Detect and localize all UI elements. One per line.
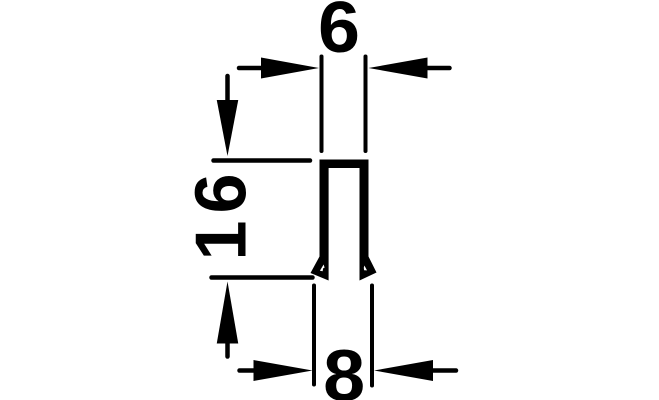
svg-text:6: 6 [318, 0, 360, 68]
dim 16 top arrow [225, 76, 230, 105]
dim 8 right arrow [433, 368, 456, 373]
notch left foot [320, 265, 325, 272]
notch right foot [364, 266, 367, 271]
svg-text:16: 16 [182, 166, 262, 260]
dim 8 extension line right [370, 286, 374, 386]
dim 16 extension line top [214, 158, 311, 163]
dim 6 left arrow [239, 66, 266, 71]
dim 6 extension line right [364, 57, 368, 152]
dim 16 extension line bottom [212, 275, 313, 280]
dim 16 bottom arrow [225, 344, 230, 357]
profile cross-section (U-channel with barbed feet) [311, 160, 377, 281]
dim 6 extension line left [320, 57, 324, 152]
dim 6 right arrow [428, 66, 450, 71]
dim 8 left arrow [240, 368, 259, 373]
svg-text:8: 8 [323, 337, 365, 400]
dim 8 extension line left [312, 286, 316, 385]
